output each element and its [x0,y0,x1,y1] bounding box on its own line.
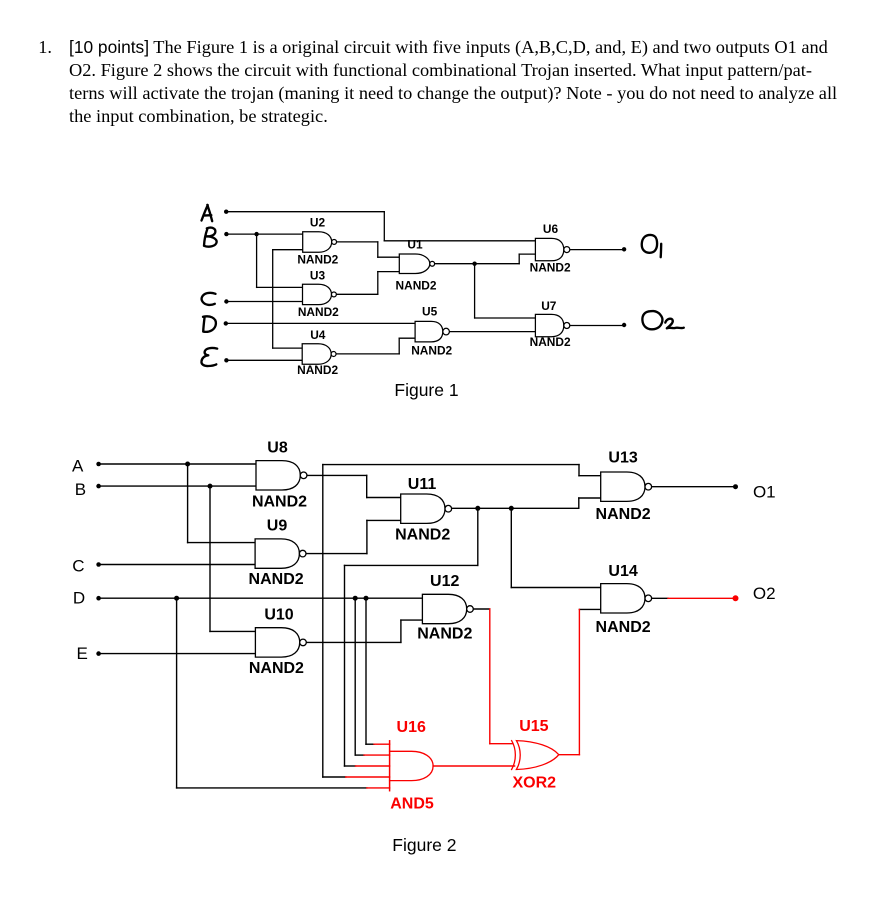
wire: D to U12 top input [99,597,423,599]
wire: U1 output junction down to U7 top input [474,264,476,318]
svg-text:U12: U12 [430,573,459,590]
U11 gate body [401,494,445,523]
wire: U12 output stub (black) [474,608,490,610]
net rail: long vertical from U8 output down to AND5 input 4 [322,465,324,777]
wire: U3 output to U1 bottom input [337,293,378,295]
junction node on U1 output [472,262,476,266]
wire: XOR2 output corner black stub into U14 bottom input [579,608,600,610]
input dot B (fig1) [224,232,228,236]
U7 gate body [535,314,563,336]
svg-text:NAND2: NAND2 [596,619,651,636]
svg-text:D: D [73,589,85,608]
wire: D tap x355 down to AND5 input 2 [354,598,356,755]
wire: U9 output to U11 bottom input [306,553,367,555]
red wire: U12 output down to XOR2 top input [489,609,491,744]
wire: A to U8 top input [99,463,256,465]
handwritten output label O2 (fig1) [642,311,683,329]
svg-text:U11: U11 [408,476,437,493]
svg-text:NAND2: NAND2 [298,305,339,319]
junction node on U11 output (x477.8) [475,506,480,511]
U13 gate body [601,472,645,501]
input dot D (fig2) [96,596,101,601]
wire: B junction down to U3 top input [256,234,258,287]
U6 gate body [535,238,563,260]
input dot E (fig2) [96,651,101,656]
junction node on D wire (left tap) [174,596,179,601]
svg-text:NAND2: NAND2 [417,625,472,642]
handwritten input label E (fig1) [201,348,217,366]
input dot C (fig2) [96,562,101,567]
wire: B to U8 bottom input [99,485,256,487]
junction node on B wire [208,484,213,489]
svg-text:U13: U13 [608,450,637,467]
wire: A to elbow [226,211,384,213]
red wire: U14 output to O2 [668,597,736,599]
svg-text:XOR2: XOR2 [513,774,557,791]
svg-text:U16: U16 [397,719,426,736]
svg-text:U3: U3 [310,268,326,282]
input dot D (fig1) [224,321,228,325]
svg-text:U5: U5 [422,304,438,318]
U12 gate body [422,594,466,623]
svg-text:U8: U8 [267,439,288,456]
svg-text:O2: O2 [753,584,776,603]
wire: U11 junction down and left to AND5 input 3 vertical [477,508,479,565]
junction node on U11 output (x511.3) [509,506,514,511]
U14 gate body [601,584,645,613]
svg-text:U9: U9 [267,518,288,535]
handwritten output label O1 (fig1) [642,235,661,257]
wire: U13 top input jog [578,465,580,476]
svg-text:NAND2: NAND2 [249,660,304,677]
wire: C to U3 bottom input [226,301,302,303]
svg-text:NAND2: NAND2 [530,261,571,275]
U3 gate body [303,284,332,304]
svg-text:U14: U14 [608,563,637,580]
wire: D left tap down to AND5 input 5 [176,598,178,788]
red wire: XOR2 output up to U14 bottom input [559,754,580,756]
U10 gate body [255,628,299,657]
wire: U1 output [435,263,520,265]
svg-text:O1: O1 [753,482,776,501]
handwritten input label B (fig1) [204,228,217,247]
wire: U6 output to O1 [570,249,624,251]
U8 gate body [256,461,300,490]
xor gate U15 body [516,741,558,770]
wire: A junction down to U9 top input [187,464,189,543]
wire: U2 output to U1 top input [337,241,378,243]
problem number [38,36,52,59]
svg-text:NAND2: NAND2 [396,278,437,292]
xor gate U15 leading arc [512,741,516,770]
svg-text:NAND2: NAND2 [596,506,651,523]
wire: D to U5 top input [226,322,415,324]
stub AND5 input 1 [366,743,374,745]
junction node on B wire [254,232,258,236]
svg-text:E: E [77,644,88,663]
U9 gate body [255,539,299,568]
svg-text:NAND2: NAND2 [530,335,571,349]
wire: U7 output to O2 [570,325,624,327]
wire: U10 output to U12 bottom input [307,641,401,643]
handwritten input label D (fig1) [203,316,216,332]
black+red stub AND5 input 4 [323,776,346,778]
input dot A (fig2) [96,462,101,467]
wire: U4 output to U5 bottom input [336,353,399,355]
svg-text:U10: U10 [264,606,293,623]
handwritten input label A (fig1) [202,205,213,221]
svg-text:NAND2: NAND2 [249,571,304,588]
svg-text:U7: U7 [541,299,557,313]
wire: U13 output to O1 [652,486,736,488]
junction node on D wire (tap x355) [353,596,358,601]
U4 gate body [302,344,331,364]
and-5 gate U16 input stem [389,741,391,791]
stub AND5 input 2 [355,754,364,756]
wire: B to U2 top input [226,233,302,235]
red stub AND5 input 5 [367,787,390,789]
stub AND5 input 3 [345,765,356,767]
wire: E to U4 bottom input [226,359,302,361]
svg-text:NAND2: NAND2 [395,527,450,544]
U2 gate body [303,232,332,253]
svg-text:AND5: AND5 [390,796,434,813]
svg-text:U2: U2 [310,215,326,229]
handwritten input label C (fig1) [202,293,216,305]
svg-text:A: A [72,456,84,475]
wire: E to U10 bottom input [99,653,256,655]
svg-text:NAND2: NAND2 [252,493,307,510]
svg-text:U1: U1 [407,238,423,252]
red wire: AND5 output to XOR2 bottom input [433,765,514,767]
wire: C to U9 bottom input [99,564,256,566]
wire: B junction down to U10 top input [209,486,211,631]
wire: U8 output to U11 top input [307,474,366,476]
svg-text:NAND2: NAND2 [297,253,338,267]
svg-text:NAND2: NAND2 [411,344,452,358]
svg-text:U4: U4 [310,328,326,342]
svg-text:U15: U15 [519,718,548,735]
U1 gate body [399,254,430,274]
wire: D tap x366 down to AND5 input 1 [365,598,367,744]
svg-text:NAND2: NAND2 [297,363,338,377]
input dot E (fig1) [224,358,228,362]
U5 gate body [415,321,443,342]
svg-text:C: C [72,557,84,576]
svg-text:Figure 2: Figure 2 [392,835,456,855]
wire: U1 output jog up to U6 bottom input [518,254,520,264]
input dot C (fig1) [224,299,228,303]
net rail: U8 output corner to U13 top horizontal [323,464,579,466]
junction node on D wire (tap x366) [364,596,369,601]
wire: U11 junction down to U14 top input [510,508,512,587]
wire: U14 output stub (black) [652,597,668,599]
wire: U11 output jog up to U13 bottom input [578,498,580,508]
input dot B (fig2) [96,484,101,489]
junction node on A wire [185,462,190,467]
input dot A (fig1) [224,210,228,214]
wire: U2 bottom input vertical to U4 top input [273,249,303,251]
problem statement paragraph [69,36,859,127]
wire: U5 output to U7 bottom input [449,331,535,333]
svg-text:B: B [75,480,86,499]
wire: U11 output rail [452,507,579,509]
svg-text:U6: U6 [543,222,559,236]
svg-text:Figure 1: Figure 1 [394,380,458,400]
and-5 gate U16 body [390,751,434,780]
